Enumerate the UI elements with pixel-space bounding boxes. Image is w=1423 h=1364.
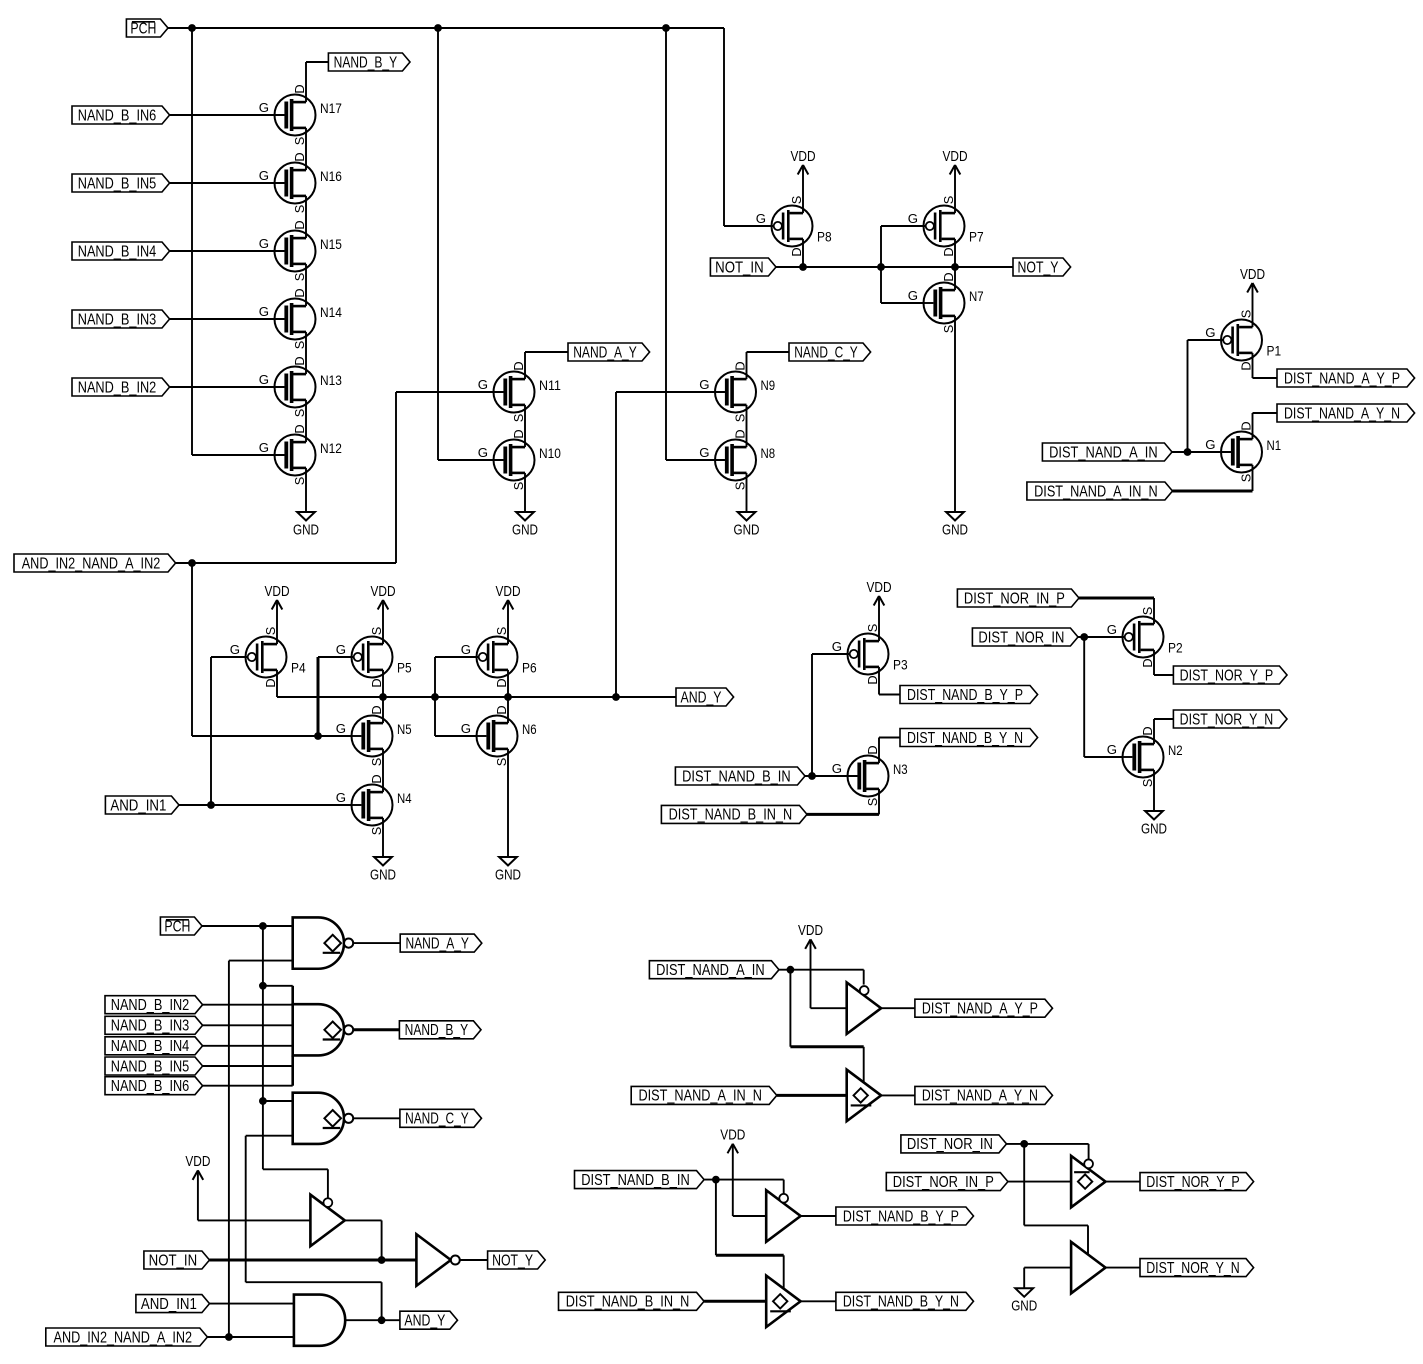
- svg-text:NAND_B_IN3: NAND_B_IN3: [78, 311, 157, 328]
- wire N9 gate from AND_Y: [616, 392, 725, 697]
- svg-text:S: S: [369, 758, 384, 767]
- wire DIST_NAND_A_IN bottom: [779, 970, 864, 1083]
- svg-text:D: D: [865, 745, 880, 754]
- svg-text:N14: N14: [320, 304, 342, 320]
- transistor P3: [832, 624, 908, 685]
- svg-text:GND: GND: [370, 867, 396, 883]
- wire NAND_B_IN6 to gate: [170, 114, 285, 116]
- buffer DIST_NAND_A N: [847, 1070, 881, 1122]
- junction AND_IN1 dot: [207, 801, 215, 809]
- svg-text:G: G: [230, 642, 240, 657]
- svg-text:DIST_NOR_IN: DIST_NOR_IN: [978, 629, 1064, 646]
- svg-text:S: S: [865, 624, 880, 633]
- wire N2 source to ground: [1153, 770, 1155, 811]
- wire DIST_NAND_A_Y_P: [1253, 353, 1278, 378]
- svg-text:DIST_NOR_Y_P: DIST_NOR_Y_P: [1146, 1174, 1240, 1191]
- net label DIST_NAND_B_IN_N: [661, 805, 807, 823]
- svg-text:GND: GND: [495, 867, 521, 883]
- svg-text:NAND_C_Y: NAND_C_Y: [794, 344, 858, 361]
- svg-text:N1: N1: [1267, 437, 1282, 453]
- svg-text:G: G: [259, 100, 269, 115]
- svg-text:S: S: [263, 627, 278, 636]
- net label AND_IN1: [105, 796, 179, 814]
- power VDD above P1: [1240, 267, 1265, 293]
- svg-text:GND: GND: [512, 522, 538, 538]
- transistor N14: [259, 288, 342, 349]
- svg-text:NAND_B_IN6: NAND_B_IN6: [78, 107, 157, 124]
- svg-text:P6: P6: [522, 660, 537, 676]
- net label DIST_NAND_A_Y_P: [1277, 369, 1415, 387]
- wire DIST_NOR_Y_N: [1154, 719, 1173, 744]
- net label DIST_NAND_B_Y_P: [900, 686, 1038, 704]
- svg-text:N4: N4: [397, 790, 412, 806]
- wire DIST_NOR_IN bottom: [1007, 1144, 1089, 1255]
- svg-text:DIST_NAND_A_Y_N: DIST_NAND_A_Y_N: [922, 1088, 1038, 1105]
- svg-text:NAND_B_IN4: NAND_B_IN4: [111, 1038, 190, 1055]
- wire DIST_NOR_IN net: [1078, 637, 1125, 757]
- wire NAND_B output: [354, 1028, 400, 1031]
- net label AND_Y top: [676, 688, 734, 706]
- svg-text:G: G: [259, 236, 269, 251]
- svg-text:G: G: [908, 211, 918, 226]
- wire NAND_B_Y drain: [306, 62, 328, 102]
- svg-text:S: S: [292, 137, 307, 146]
- transistor N16: [259, 152, 342, 213]
- wire NAND_B_IN3 to gate: [170, 318, 285, 320]
- wire DIST_NOR_IN_P bottom: [1008, 1181, 1071, 1183]
- wire AND_Y rail: [277, 657, 676, 736]
- transistor N9: [699, 361, 775, 422]
- net label DIST_NAND_B_IN bottom: [575, 1171, 705, 1189]
- svg-text:D: D: [733, 429, 748, 438]
- wire VDD to buffer B: [733, 1144, 766, 1216]
- svg-text:S: S: [292, 205, 307, 214]
- svg-text:D: D: [511, 361, 526, 370]
- wire DIST_NAND_B_Y_N: [879, 738, 900, 764]
- svg-text:PCH: PCH: [130, 20, 156, 37]
- svg-text:S: S: [292, 477, 307, 486]
- wire buffer NOR N output: [1106, 1267, 1141, 1269]
- junction NOT_IN bottom dot: [378, 1256, 386, 1264]
- junction AND_Y rail dots: [379, 693, 620, 701]
- svg-text:D: D: [292, 84, 307, 93]
- wire NAND_B_IN2 to gate: [170, 386, 285, 388]
- transistor N2: [1107, 726, 1183, 787]
- net label NAND_B_IN6 bottom: [105, 1077, 203, 1095]
- inverter NOT: [416, 1234, 459, 1286]
- net label AND_IN2_NAND_A_IN2: [14, 554, 176, 572]
- wire NAND_B_IN5 to gate: [170, 182, 285, 184]
- svg-text:NAND_B_IN4: NAND_B_IN4: [78, 243, 157, 260]
- transistor N7: [908, 272, 984, 333]
- svg-text:S: S: [941, 196, 956, 205]
- net label DIST_NOR_Y_N bottom: [1140, 1259, 1254, 1277]
- svg-text:G: G: [336, 642, 346, 657]
- svg-text:DIST_NAND_B_IN: DIST_NAND_B_IN: [581, 1172, 690, 1189]
- wire N8 gate from PCH: [666, 459, 725, 461]
- transistor N15: [259, 220, 342, 281]
- NAND gate A: [293, 917, 354, 968]
- svg-text:GND: GND: [1141, 821, 1167, 837]
- net label NAND_B_IN5 bottom: [105, 1057, 203, 1075]
- svg-text:D: D: [292, 152, 307, 161]
- power VDD bottom-left: [185, 1154, 210, 1180]
- transistor N10: [478, 429, 561, 490]
- wire NAND_C_Y drain: [747, 352, 790, 379]
- svg-text:G: G: [699, 445, 709, 460]
- svg-text:NAND_A_Y: NAND_A_Y: [573, 344, 637, 361]
- wire AND_IN2 net: [176, 563, 396, 736]
- net label DIST_NOR_Y_N: [1173, 710, 1287, 728]
- svg-text:P1: P1: [1267, 343, 1282, 359]
- svg-text:DIST_NAND_A_Y_P: DIST_NAND_A_Y_P: [1284, 370, 1400, 387]
- wire N10 source to ground: [524, 473, 526, 512]
- wire N11 gate from AND_IN2: [396, 392, 503, 563]
- svg-text:VDD: VDD: [720, 1128, 745, 1144]
- wire NAND_C input B: [246, 1136, 382, 1321]
- svg-text:N8: N8: [761, 445, 776, 461]
- svg-text:NAND_B_IN5: NAND_B_IN5: [78, 175, 157, 192]
- wire VDD to buffer A: [811, 939, 847, 1008]
- wire NAND_B_IN4 bottom: [203, 1045, 293, 1047]
- wire DIST_NAND_B_IN_N: [807, 789, 879, 815]
- transistor P2: [1107, 607, 1183, 668]
- svg-text:P2: P2: [1168, 640, 1183, 656]
- junction DIST_NAND_B_IN bottom dot: [712, 1176, 720, 1184]
- transistor P1: [1205, 310, 1281, 371]
- svg-text:D: D: [941, 247, 956, 256]
- svg-text:D: D: [941, 272, 956, 281]
- wire DIST_NAND_A_IN_N bottom: [777, 1094, 847, 1097]
- transistor N8: [699, 429, 775, 490]
- ground under N10: [512, 512, 538, 538]
- svg-text:N12: N12: [320, 440, 342, 456]
- net label DIST_NAND_B_IN_N bottom: [559, 1292, 705, 1310]
- svg-text:G: G: [756, 211, 766, 226]
- net label NAND_C_Y top: [789, 343, 871, 361]
- svg-text:D: D: [1239, 421, 1254, 430]
- transistor P7: [908, 196, 984, 257]
- wire DIST_NAND_A_Y_N: [1253, 413, 1278, 439]
- svg-text:S: S: [369, 627, 384, 636]
- wire NOT_IN node: [776, 226, 1013, 303]
- svg-text:NAND_B_Y: NAND_B_Y: [334, 54, 398, 71]
- svg-text:G: G: [336, 721, 346, 736]
- svg-text:DIST_NAND_B_Y_P: DIST_NAND_B_Y_P: [907, 687, 1023, 704]
- net label NAND_B_Y bottom: [399, 1021, 481, 1039]
- net label NOT_IN: [710, 258, 776, 276]
- transistor N4: [336, 774, 412, 835]
- net label NAND_B_IN3 bottom: [105, 1016, 203, 1034]
- wire AND output: [345, 1319, 400, 1321]
- net label DIST_NAND_B_Y_P bottom: [836, 1207, 974, 1225]
- svg-text:G: G: [478, 377, 488, 392]
- net label DIST_NOR_IN: [972, 628, 1078, 646]
- svg-text:DIST_NAND_A_Y_P: DIST_NAND_A_Y_P: [922, 1001, 1038, 1018]
- wire N4 source to ground: [382, 818, 384, 857]
- svg-text:DIST_NOR_IN: DIST_NOR_IN: [907, 1136, 993, 1153]
- svg-text:D: D: [292, 424, 307, 433]
- svg-text:D: D: [1140, 726, 1155, 735]
- svg-text:G: G: [259, 372, 269, 387]
- svg-text:DIST_NOR_Y_N: DIST_NOR_Y_N: [1146, 1260, 1240, 1277]
- power VDD above P7: [943, 149, 968, 175]
- svg-text:PCH: PCH: [164, 918, 190, 935]
- junction NOT_IN dots: [799, 263, 959, 271]
- wire N12 source to ground: [305, 468, 307, 512]
- wire DIST_NAND_A_IN net: [1172, 340, 1231, 452]
- svg-text:S: S: [1239, 310, 1254, 319]
- net label DIST_NOR_Y_P bottom: [1140, 1173, 1254, 1191]
- svg-text:G: G: [1205, 325, 1215, 340]
- svg-text:D: D: [511, 429, 526, 438]
- svg-text:S: S: [494, 758, 509, 767]
- wire DIST_NAND_B_IN_N bottom: [704, 1300, 766, 1303]
- net label DIST_NAND_A_Y_N bottom: [915, 1086, 1053, 1104]
- wire NAND_B_IN6 bottom: [203, 1085, 293, 1087]
- wire buffer A N output: [881, 1094, 915, 1096]
- wire DIST_NAND_A_IN_N: [1173, 465, 1253, 491]
- svg-text:NAND_B_Y: NAND_B_Y: [405, 1022, 469, 1039]
- svg-text:DIST_NOR_Y_N: DIST_NOR_Y_N: [1180, 711, 1274, 728]
- wire NAND_A_Y drain: [525, 352, 568, 379]
- svg-text:S: S: [292, 273, 307, 282]
- wire N8 source to ground: [746, 473, 748, 512]
- svg-text:VDD: VDD: [798, 923, 823, 939]
- svg-text:DIST_NAND_A_IN_N: DIST_NAND_A_IN_N: [1034, 483, 1158, 500]
- wire N12 gate from PCH: [192, 454, 284, 456]
- svg-text:S: S: [292, 341, 307, 350]
- junction DIST_NOR_IN bottom dot: [1020, 1140, 1028, 1148]
- svg-text:G: G: [908, 288, 918, 303]
- svg-text:G: G: [461, 642, 471, 657]
- net label DIST_NOR_IN_P bottom: [886, 1173, 1008, 1191]
- power VDD above P4: [265, 584, 290, 610]
- svg-text:N15: N15: [320, 236, 342, 252]
- wire N9-N8 chain: [746, 405, 748, 447]
- power VDD dist B: [720, 1128, 745, 1154]
- wire P4 source: [276, 600, 278, 644]
- svg-text:G: G: [1107, 742, 1117, 757]
- svg-text:D: D: [369, 774, 384, 783]
- transistor N3: [832, 745, 908, 806]
- transistor P5: [336, 627, 412, 688]
- svg-text:DIST_NAND_A_Y_N: DIST_NAND_A_Y_N: [1284, 405, 1400, 422]
- wire NAND_B_IN5 bottom: [203, 1065, 293, 1067]
- AND gate: [294, 1295, 345, 1346]
- wire NAND_B_IN4 to gate: [170, 250, 285, 252]
- wire N11-N10 chain: [524, 405, 526, 447]
- svg-text:G: G: [832, 639, 842, 654]
- wire NAND_C output: [354, 1117, 400, 1119]
- svg-text:G: G: [461, 721, 471, 736]
- net label DIST_NAND_B_Y_N bottom: [836, 1292, 974, 1310]
- wire NAND_B_IN2 bottom: [203, 1004, 293, 1006]
- wire N7 source to ground: [954, 316, 956, 512]
- ground dist NOR: [1011, 1288, 1037, 1314]
- wire P1 source: [1252, 283, 1254, 327]
- svg-text:DIST_NOR_IN_P: DIST_NOR_IN_P: [893, 1174, 994, 1191]
- svg-text:N7: N7: [969, 288, 984, 304]
- svg-text:S: S: [789, 196, 804, 205]
- ground under N7: [942, 512, 968, 538]
- svg-text:D: D: [789, 247, 804, 256]
- svg-text:P8: P8: [817, 229, 832, 245]
- svg-text:N6: N6: [522, 721, 537, 737]
- net label PCH gate-level: [160, 917, 202, 935]
- svg-text:N5: N5: [397, 721, 412, 737]
- svg-text:G: G: [1107, 622, 1117, 637]
- svg-text:DIST_NAND_A_IN_N: DIST_NAND_A_IN_N: [638, 1088, 762, 1105]
- NAND gate C: [293, 1093, 354, 1144]
- net label DIST_NAND_A_Y_N: [1277, 404, 1415, 422]
- power VDD above P6: [496, 584, 521, 610]
- transistor N17: [259, 84, 342, 145]
- svg-text:S: S: [1140, 607, 1155, 616]
- svg-text:D: D: [733, 361, 748, 370]
- net label NAND_A_Y top: [568, 343, 650, 361]
- buffer precharge NOT_IN: [310, 1195, 344, 1247]
- svg-text:AND_Y: AND_Y: [404, 1313, 445, 1330]
- ground under N4: [370, 857, 396, 883]
- svg-text:AND_IN1: AND_IN1: [141, 1296, 197, 1313]
- svg-text:VDD: VDD: [1240, 267, 1265, 283]
- net label NOT_IN bottom: [144, 1251, 210, 1269]
- wire precharge buffer output: [345, 1220, 382, 1260]
- svg-text:DIST_NOR_Y_P: DIST_NOR_Y_P: [1180, 667, 1274, 684]
- net label NAND_A_Y bottom: [400, 934, 482, 952]
- svg-text:P7: P7: [969, 229, 984, 245]
- svg-text:NAND_A_Y: NAND_A_Y: [405, 935, 469, 952]
- wire NAND_B_IN3 bottom: [203, 1024, 293, 1026]
- svg-text:DIST_NAND_A_IN: DIST_NAND_A_IN: [656, 962, 765, 979]
- svg-text:DIST_NAND_B_Y_P: DIST_NAND_B_Y_P: [843, 1208, 959, 1225]
- power VDD dist A: [798, 923, 823, 949]
- svg-text:N11: N11: [539, 377, 561, 393]
- svg-text:DIST_NOR_IN_P: DIST_NOR_IN_P: [964, 590, 1065, 607]
- junction DIST_NOR_IN dot: [1080, 633, 1088, 641]
- junction DIST_NAND_B_IN dot: [808, 772, 816, 780]
- junction DIST_NAND_A_IN bottom dot: [787, 966, 795, 974]
- net label DIST_NOR_Y_P: [1173, 666, 1287, 684]
- net label NAND_B_IN6: [72, 106, 170, 124]
- wire DIST_NAND_B_IN bottom: [704, 1180, 784, 1289]
- svg-text:NAND_B_IN2: NAND_B_IN2: [111, 997, 190, 1014]
- net label DIST_NAND_A_IN_N bottom: [631, 1086, 777, 1104]
- net label DIST_NAND_B_Y_N: [900, 729, 1038, 747]
- svg-text:VDD: VDD: [867, 580, 892, 596]
- power VDD above P3: [867, 580, 892, 606]
- buffer DIST_NOR P: [1071, 1156, 1105, 1208]
- svg-text:VDD: VDD: [496, 584, 521, 600]
- wire N10 gate from PCH: [438, 459, 503, 461]
- junction PCH gate-level dots: [259, 922, 267, 1105]
- transistor N1: [1205, 421, 1281, 482]
- svg-text:NOT_IN: NOT_IN: [149, 1252, 198, 1269]
- wire AND_IN1 net: [179, 657, 351, 805]
- junction DIST_NAND_A_IN dot: [1184, 448, 1192, 456]
- svg-text:GND: GND: [1011, 1299, 1037, 1315]
- svg-text:D: D: [292, 288, 307, 297]
- svg-text:D: D: [494, 678, 509, 687]
- wire P3 source: [878, 596, 880, 641]
- svg-text:G: G: [699, 377, 709, 392]
- svg-text:DIST_NAND_B_Y_N: DIST_NAND_B_Y_N: [907, 730, 1023, 747]
- wire DIST_NOR_IN_P: [1079, 598, 1154, 624]
- net label NOT_Y top: [1013, 258, 1071, 276]
- svg-text:P4: P4: [291, 660, 306, 676]
- svg-text:AND_IN1: AND_IN1: [110, 797, 166, 814]
- net label DIST_NAND_B_IN: [675, 767, 805, 785]
- net label NAND_B_IN4: [72, 242, 170, 260]
- net label NOT_Y bottom: [488, 1251, 546, 1269]
- svg-text:N17: N17: [320, 100, 342, 116]
- wire DIST_NOR_Y_P: [1154, 650, 1173, 675]
- svg-text:G: G: [259, 168, 269, 183]
- svg-text:AND_Y: AND_Y: [681, 689, 722, 706]
- svg-text:G: G: [478, 445, 488, 460]
- wire GND to buffer NOR N: [1024, 1268, 1071, 1289]
- NAND gate B: [293, 986, 354, 1086]
- wire PCH bus: [168, 28, 724, 460]
- net label PCH: [126, 19, 168, 37]
- net label AND_Y bottom: [400, 1311, 458, 1329]
- wire buffer B N output: [801, 1300, 836, 1302]
- net label NAND_B_IN3: [72, 310, 170, 328]
- buffer DIST_NAND_B P: [766, 1190, 800, 1242]
- svg-text:S: S: [511, 414, 526, 423]
- svg-text:S: S: [865, 798, 880, 807]
- svg-text:P5: P5: [397, 660, 412, 676]
- svg-text:AND_IN2_NAND_A_IN2: AND_IN2_NAND_A_IN2: [22, 555, 161, 572]
- svg-text:D: D: [865, 675, 880, 684]
- transistor N6: [461, 705, 537, 766]
- svg-text:NAND_B_IN3: NAND_B_IN3: [111, 1018, 190, 1035]
- wire PCH gate-level: [202, 926, 328, 1198]
- net label NAND_B_Y top: [328, 53, 410, 71]
- ground under N8: [734, 512, 760, 538]
- svg-text:S: S: [733, 482, 748, 491]
- ground under N12: [293, 512, 319, 538]
- net label AND_IN1 bottom: [136, 1295, 210, 1313]
- svg-text:NAND_C_Y: NAND_C_Y: [405, 1111, 469, 1128]
- svg-text:N10: N10: [539, 445, 561, 461]
- net label NAND_C_Y bottom: [400, 1109, 482, 1127]
- wire AND_IN1 bottom: [210, 1303, 294, 1305]
- junction PCH bus dots: [188, 24, 670, 32]
- svg-text:AND_IN2_NAND_A_IN2: AND_IN2_NAND_A_IN2: [54, 1329, 193, 1346]
- svg-text:D: D: [1239, 361, 1254, 370]
- svg-text:D: D: [263, 678, 278, 687]
- svg-text:NOT_Y: NOT_Y: [1018, 259, 1059, 276]
- transistor P6: [461, 627, 537, 688]
- svg-text:D: D: [1140, 658, 1155, 667]
- wire VDD to buffer input: [198, 1170, 311, 1220]
- svg-text:VDD: VDD: [943, 149, 968, 165]
- net label DIST_NAND_A_IN_N: [1027, 482, 1173, 500]
- svg-text:N3: N3: [893, 761, 908, 777]
- transistor P8: [756, 196, 832, 257]
- svg-text:G: G: [259, 304, 269, 319]
- svg-text:G: G: [336, 790, 346, 805]
- wire buffer B P output: [801, 1215, 836, 1217]
- svg-text:G: G: [832, 761, 842, 776]
- junction AND_IN2 bottom dot: [225, 1333, 233, 1341]
- transistor N12: [259, 424, 342, 485]
- wire P7 source to VDD: [954, 165, 956, 213]
- svg-text:GND: GND: [293, 522, 319, 538]
- svg-text:GND: GND: [942, 522, 968, 538]
